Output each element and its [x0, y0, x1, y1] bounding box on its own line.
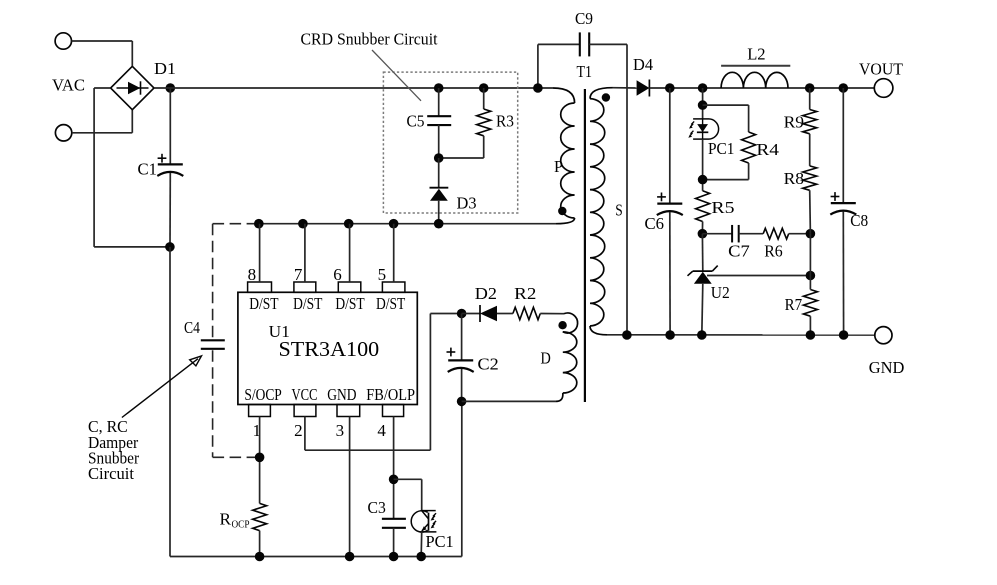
resistor R2 — [513, 307, 540, 319]
svg-text:VAC: VAC — [52, 75, 85, 94]
wire — [393, 528, 395, 557]
svg-text:R5: R5 — [711, 198, 734, 217]
svg-text:R6: R6 — [764, 242, 783, 261]
svg-text:R7: R7 — [785, 295, 803, 314]
resistor R6 — [763, 228, 789, 239]
svg-text:R4: R4 — [756, 140, 779, 159]
resistor R5 — [696, 191, 710, 222]
wire — [842, 212, 844, 336]
wire — [420, 532, 423, 557]
svg-text:D/ST: D/ST — [335, 294, 365, 313]
capacitor C6 — [657, 203, 682, 205]
node C1 bottom junction — [165, 242, 175, 252]
svg-text:R8: R8 — [784, 169, 805, 188]
winding D of T1 — [563, 313, 578, 333]
wire — [94, 246, 170, 248]
capacitor C2 — [448, 359, 473, 361]
wire — [701, 234, 703, 271]
svg-text:8: 8 — [248, 265, 257, 284]
resistor R7 — [803, 290, 817, 317]
wire — [809, 316, 811, 335]
AC input terminal bottom — [55, 125, 71, 141]
capacitor C3 — [382, 518, 406, 520]
pointer line to CRD box — [372, 50, 421, 101]
wire — [669, 88, 671, 204]
node pin1 dashed junction — [255, 453, 265, 463]
wire pin2 up — [429, 314, 431, 451]
wire — [809, 190, 812, 233]
dashed wire C4 lower — [212, 350, 214, 457]
wire pin6 — [349, 224, 351, 282]
svg-text:R3: R3 — [496, 111, 514, 130]
wire — [131, 41, 133, 67]
node C5 top — [434, 83, 444, 93]
AC input terminal top — [55, 33, 71, 49]
wire — [701, 222, 703, 234]
svg-text:D1: D1 — [154, 59, 176, 78]
wire — [462, 313, 480, 315]
capacitor C9 — [579, 32, 581, 56]
node D winding phase dot — [558, 321, 566, 329]
wire — [702, 284, 703, 335]
wire — [461, 401, 463, 556]
winding P of T1 — [553, 88, 575, 103]
wire — [438, 158, 440, 188]
wire — [537, 44, 539, 88]
svg-text:PC1: PC1 — [708, 139, 735, 158]
wire — [702, 139, 704, 191]
wire — [169, 247, 171, 557]
svg-text:PC1: PC1 — [426, 532, 454, 551]
wire R4 bottom — [703, 179, 749, 181]
wire — [438, 88, 440, 117]
node U2 anode gnd — [697, 330, 707, 340]
wire — [669, 212, 671, 335]
svg-text:R9: R9 — [784, 112, 805, 131]
svg-text:Circuit: Circuit — [88, 464, 134, 483]
pin 8 tab — [248, 282, 272, 292]
transformer T1 core — [584, 89, 586, 402]
node C2 bottom — [457, 397, 467, 407]
wire — [483, 88, 485, 109]
resistor ROCP — [253, 503, 267, 530]
wire C9 right drop — [626, 44, 628, 335]
wire — [438, 201, 440, 224]
IC U1 STR3A100 body — [238, 292, 417, 404]
svg-text:D3: D3 — [457, 194, 477, 213]
node divider tap — [806, 271, 816, 281]
zener U2 — [693, 270, 713, 272]
pin 3 tab — [337, 405, 360, 417]
wire to PC1 transistor — [394, 478, 422, 480]
svg-text:VOUT: VOUT — [859, 60, 903, 79]
resistor R4 — [742, 132, 756, 163]
node R3 top — [479, 83, 489, 93]
wire secondary bottom rail — [607, 334, 875, 336]
wire — [739, 233, 764, 235]
wire — [842, 88, 844, 203]
optocoupler PC1 LED — [693, 118, 708, 120]
svg-text:C3: C3 — [368, 498, 386, 517]
svg-text:D2: D2 — [475, 284, 497, 303]
bridge rectifier D1 — [111, 66, 154, 109]
svg-text:S/OCP: S/OCP — [244, 385, 281, 404]
wire pin8 — [259, 224, 261, 282]
svg-text:2: 2 — [294, 421, 303, 440]
capacitor C1 — [158, 163, 183, 165]
wire pin2 down — [304, 417, 306, 451]
wire — [809, 234, 811, 276]
wire — [702, 88, 704, 119]
svg-text:C1: C1 — [138, 160, 158, 179]
svg-text:C5: C5 — [407, 111, 425, 130]
svg-text:R2: R2 — [514, 284, 536, 303]
wire pin2 to node — [430, 313, 461, 315]
svg-text:C2: C2 — [478, 355, 499, 374]
pin 6 tab — [338, 282, 361, 292]
node bus pin7 — [298, 219, 308, 229]
pin 1 tab — [249, 405, 271, 417]
node bus D3 — [434, 219, 444, 229]
resistor R9 — [803, 110, 817, 134]
node R5 bottom C7 — [698, 229, 708, 239]
node bus pin6 — [344, 219, 354, 229]
wire main top rail — [154, 87, 553, 89]
capacitor C8 — [831, 202, 856, 204]
svg-text:CRD Snubber Circuit: CRD Snubber Circuit — [301, 30, 438, 49]
wire — [809, 88, 811, 110]
node S winding phase dot — [602, 93, 610, 101]
wire — [259, 531, 261, 557]
wire — [169, 88, 171, 165]
wire — [94, 87, 111, 89]
wire pin2 right — [305, 449, 431, 451]
svg-text:D/ST: D/ST — [293, 294, 323, 313]
svg-text:6: 6 — [333, 265, 342, 284]
svg-text:C7: C7 — [728, 242, 750, 261]
wire — [72, 132, 133, 134]
wire pin4 — [393, 417, 395, 519]
wire — [789, 233, 811, 235]
wire — [809, 134, 811, 166]
diode D2 — [480, 306, 497, 322]
pin 4 tab — [383, 405, 404, 417]
node D2 C2 junction — [457, 309, 467, 319]
svg-text:4: 4 — [377, 421, 386, 440]
node C8 top — [839, 83, 849, 93]
node R7 bottom — [806, 330, 816, 340]
node R9 top — [805, 83, 815, 93]
wire — [809, 276, 811, 290]
svg-text:R: R — [220, 509, 232, 528]
dashed wire C4 upper — [212, 224, 214, 339]
wire — [483, 136, 485, 158]
wire — [538, 43, 580, 45]
inductor L2 — [721, 72, 788, 88]
node C6 top — [665, 83, 675, 93]
svg-text:C4: C4 — [184, 318, 200, 337]
wire — [748, 105, 750, 132]
svg-text:GND: GND — [327, 385, 356, 404]
wire — [702, 233, 732, 235]
wire bottom rail primary — [170, 556, 462, 558]
node bus pin5 — [389, 219, 399, 229]
terminal GND — [875, 327, 892, 344]
capacitor C7 — [731, 225, 733, 243]
wire pin1 — [259, 417, 261, 504]
svg-text:3: 3 — [336, 421, 345, 440]
svg-text:D/ST: D/ST — [249, 294, 279, 313]
node C9 main rail — [533, 83, 543, 93]
svg-text:7: 7 — [294, 265, 303, 284]
svg-text:5: 5 — [378, 265, 387, 284]
capacitor C5 — [427, 115, 451, 117]
diode D4 — [637, 80, 650, 96]
node C5/R3 junction — [434, 153, 444, 163]
resistor R3 — [477, 109, 491, 136]
arrow to C4 — [122, 359, 198, 418]
wire — [748, 163, 750, 180]
node PC1 emitter gnd — [416, 552, 426, 562]
node PC1 branch top — [698, 83, 708, 93]
winding S of T1 — [590, 88, 613, 99]
wire secondary top rail — [649, 87, 874, 89]
svg-text:C6: C6 — [645, 214, 665, 233]
node C3 bottom — [389, 552, 399, 562]
dashed wire C4 to pin1 — [213, 456, 260, 458]
wire — [461, 314, 463, 361]
svg-text:STR3A100: STR3A100 — [279, 337, 380, 361]
wire U2 cathode to tap — [707, 275, 810, 277]
wire drain bus — [259, 223, 556, 225]
node bus pin8 — [254, 219, 264, 229]
node bridge output — [166, 83, 176, 93]
wire — [439, 157, 484, 159]
node R6 R8 junction — [806, 229, 816, 239]
node R4 branch top — [698, 100, 708, 110]
svg-text:D/ST: D/ST — [376, 294, 406, 313]
wire pin7 — [304, 224, 306, 282]
node C8 bottom — [839, 330, 849, 340]
node R4 branch bottom — [698, 175, 708, 185]
svg-text:L2: L2 — [747, 45, 765, 64]
svg-text:GND: GND — [869, 358, 905, 377]
wire — [131, 109, 133, 133]
wire pin3 — [349, 417, 351, 557]
phototransistor PC1 — [411, 511, 427, 532]
resistor R8 — [803, 166, 817, 190]
wire R4 top — [703, 104, 749, 106]
wire — [497, 313, 513, 315]
svg-text:D4: D4 — [633, 55, 653, 74]
node C9 bottom — [622, 330, 632, 340]
svg-text:T1: T1 — [577, 62, 593, 81]
wire pin5 — [393, 224, 395, 282]
svg-text:FB/OLP: FB/OLP — [366, 385, 415, 404]
node pin3 gnd — [345, 552, 355, 562]
wire — [461, 369, 463, 401]
wire — [438, 125, 440, 158]
svg-text:VCC: VCC — [292, 385, 318, 404]
wire — [169, 173, 171, 247]
CRD snubber dashed box — [383, 72, 517, 213]
svg-text:OCP: OCP — [232, 518, 250, 530]
wire — [462, 400, 556, 402]
wire — [72, 40, 133, 42]
svg-text:C9: C9 — [575, 9, 593, 28]
svg-text:D: D — [541, 349, 551, 368]
svg-text:U2: U2 — [711, 283, 730, 302]
wire — [613, 87, 637, 89]
node pin4 branch — [389, 475, 399, 485]
diode D3 — [430, 189, 448, 201]
wire — [589, 43, 627, 45]
svg-text:P: P — [554, 157, 563, 176]
wire — [93, 88, 95, 247]
wire — [540, 313, 564, 315]
inductor L2 core bar — [721, 65, 790, 67]
node C6 bottom — [665, 330, 675, 340]
pin 5 tab — [382, 282, 405, 292]
node ROCP bottom — [255, 552, 265, 562]
capacitor C4 — [201, 339, 225, 341]
svg-text:C8: C8 — [850, 211, 868, 230]
pin 2 tab — [294, 405, 316, 417]
terminal VOUT — [874, 79, 893, 98]
pin 7 tab — [294, 282, 316, 292]
svg-text:S: S — [615, 201, 623, 220]
dashed wire to C4 — [213, 223, 259, 225]
node P winding phase dot — [558, 207, 566, 215]
